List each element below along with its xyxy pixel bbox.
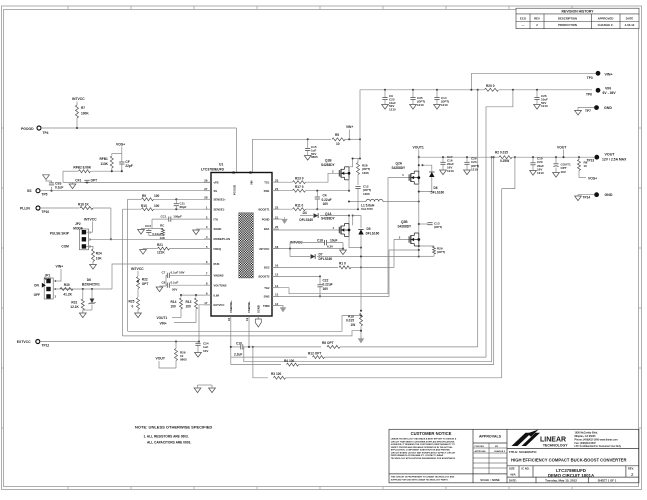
svg-text:VOUT: VOUT bbox=[605, 152, 616, 156]
resistor R18 0.015 1W bbox=[360, 310, 362, 312]
svg-text:23: 23 bbox=[275, 178, 279, 182]
svg-text:BZX84C5V1: BZX84C5V1 bbox=[82, 282, 100, 286]
ground TP14 bbox=[578, 195, 594, 196]
svg-text:26: 26 bbox=[204, 178, 208, 182]
ground PGND pin21 bbox=[272, 218, 282, 220]
svg-text:R21: R21 bbox=[157, 243, 163, 247]
jumper shunt arrow JP1 bbox=[42, 283, 46, 288]
svg-text:RFB2 8.06K: RFB2 8.06K bbox=[73, 165, 91, 169]
capacitor C24 1uF 16V bbox=[197, 342, 199, 343]
svg-text:TP14: TP14 bbox=[583, 196, 591, 200]
resistor R20 0 bbox=[485, 88, 499, 91]
svg-text:TP7: TP7 bbox=[585, 109, 591, 113]
wire VIN+ to TP3 bbox=[471, 72, 595, 74]
op-amp U1 LTC3789EUFD bbox=[211, 173, 272, 317]
svg-text:1210: 1210 bbox=[537, 171, 544, 175]
svg-text:6.3V: 6.3V bbox=[327, 244, 333, 248]
svg-text:LINEAR: LINEAR bbox=[540, 437, 566, 444]
resistor R12 OPT bbox=[313, 356, 325, 359]
svg-text:100: 100 bbox=[154, 194, 160, 198]
svg-text:COM: COM bbox=[61, 244, 69, 248]
svg-text:1306: 1306 bbox=[363, 192, 370, 196]
ground TP7 bbox=[578, 108, 594, 111]
svg-text:PGND: PGND bbox=[262, 217, 270, 221]
resistor R13 100 bbox=[195, 294, 197, 296]
svg-text:TG2: TG2 bbox=[264, 286, 270, 290]
capacitor C14 (OPT) 1210 bbox=[436, 89, 438, 91]
svg-text:HOWEVER, IT REMAINS THE CUSTOM: HOWEVER, IT REMAINS THE CUSTOMER'S RESPO… bbox=[391, 443, 456, 446]
U1 right pin labels and numbers bbox=[258, 178, 279, 307]
resistor R31 12.1K bbox=[82, 289, 84, 299]
wire U1 pin10 bbox=[230, 316, 232, 364]
svg-text:S4288DY: S4288DY bbox=[321, 163, 336, 167]
svg-text:DFLS160: DFLS160 bbox=[366, 232, 380, 236]
svg-text:22: 22 bbox=[275, 205, 279, 209]
svg-text:ON: ON bbox=[34, 284, 39, 288]
svg-text:R4 100: R4 100 bbox=[284, 359, 295, 363]
svg-text:ILIM: ILIM bbox=[214, 293, 220, 297]
svg-text:NOTE: UNLESS OTHERWISE SPECIFI: NOTE: UNLESS OTHERWISE SPECIFIED bbox=[135, 424, 212, 429]
test point TP10 PLLIN bbox=[36, 206, 40, 210]
svg-text:SS: SS bbox=[27, 189, 32, 193]
ground C29/C23 bbox=[464, 170, 471, 175]
svg-text:CSENSE+: CSENSE+ bbox=[229, 300, 233, 313]
wire C7/C8 left bbox=[165, 275, 167, 286]
svg-text:CHARLIE Z: CHARLIE Z bbox=[494, 450, 506, 453]
resistor R1 0 bbox=[272, 266, 338, 268]
svg-text:D4: D4 bbox=[303, 211, 307, 215]
net label VOUT1 (R14) bbox=[172, 317, 181, 319]
svg-text:R30: R30 bbox=[64, 283, 70, 287]
svg-text:vFB: vFB bbox=[214, 180, 219, 184]
resistor R9 100 bbox=[128, 198, 141, 200]
wire power bus mid bbox=[360, 248, 362, 311]
svg-text:100: 100 bbox=[186, 304, 192, 308]
ground C15 bbox=[304, 156, 311, 161]
resistor RFB1 113K bbox=[111, 153, 113, 155]
svg-text:100: 100 bbox=[154, 204, 160, 208]
svg-text:VERIFY PROPER AND RELIABLE OPE: VERIFY PROPER AND RELIABLE OPERATION IN … bbox=[391, 446, 454, 449]
svg-text:TECHNOLOGY APPLICATIONS ENGINE: TECHNOLOGY APPLICATIONS ENGINEERING FOR … bbox=[391, 457, 456, 460]
svg-text:Q1B: Q1B bbox=[325, 159, 332, 163]
resistor RC 13K bbox=[162, 229, 165, 236]
svg-text:RUN: RUN bbox=[214, 262, 220, 266]
svg-text:SIZE: SIZE bbox=[509, 466, 515, 470]
ground COUT1 bbox=[553, 173, 560, 178]
svg-text:R25: R25 bbox=[129, 300, 135, 304]
svg-text:VIN+: VIN+ bbox=[605, 72, 613, 76]
svg-text:R9: R9 bbox=[142, 194, 146, 198]
svg-text:VIN+: VIN+ bbox=[56, 265, 64, 269]
svg-text:C10: C10 bbox=[236, 341, 242, 345]
svg-text:C18: C18 bbox=[317, 238, 323, 242]
svg-text:INTVCC: INTVCC bbox=[72, 97, 85, 101]
resistor R21 121K bbox=[146, 248, 157, 250]
svg-text:CHARLIE Z.: CHARLIE Z. bbox=[598, 23, 614, 27]
U1 left pin labels and numbers bbox=[204, 178, 230, 307]
resistor R6 OPT bbox=[327, 345, 340, 348]
svg-text:24: 24 bbox=[275, 187, 279, 191]
capacitor C18 10uF 6.3V bbox=[289, 243, 291, 257]
test point TP14 GND bbox=[594, 192, 599, 197]
svg-text:DESCRIPTION: DESCRIPTION bbox=[558, 16, 577, 20]
svg-text:BOOST1: BOOST1 bbox=[258, 207, 270, 211]
svg-text:1210: 1210 bbox=[447, 169, 454, 173]
ground CF1 bbox=[72, 183, 74, 185]
svg-text:12: 12 bbox=[275, 302, 279, 306]
capacitor C19/C20 22uF 16V 1210 bbox=[532, 156, 534, 158]
svg-text:CIRCUIT BOARD LAYOUT MAY SIGNI: CIRCUIT BOARD LAYOUT MAY SIGNIFICANTLY A… bbox=[391, 451, 456, 454]
wire vFB bbox=[62, 171, 64, 182]
svg-text:1210: 1210 bbox=[471, 167, 478, 171]
svg-text:TP13: TP13 bbox=[587, 159, 595, 163]
svg-text:100K: 100K bbox=[81, 112, 89, 116]
ground R31 bbox=[79, 313, 86, 318]
resistor R7 100K bbox=[76, 102, 78, 106]
svg-text:VIN+: VIN+ bbox=[346, 125, 353, 129]
resistor R5 10 bbox=[332, 138, 345, 141]
svg-text:DFLS160: DFLS160 bbox=[299, 218, 313, 222]
svg-text:SS: SS bbox=[214, 189, 218, 193]
svg-text:22pF: 22pF bbox=[125, 164, 132, 168]
svg-text:21: 21 bbox=[275, 215, 279, 219]
svg-text:EXTVCC: EXTVCC bbox=[17, 340, 31, 344]
svg-text:R11 0: R11 0 bbox=[295, 204, 304, 208]
ground TRIM bbox=[280, 308, 286, 313]
wire INTVCC pin18 bbox=[272, 248, 343, 250]
svg-text:SGND: SGND bbox=[214, 227, 222, 231]
svg-text:R14: R14 bbox=[171, 300, 177, 304]
ground C26 bbox=[534, 105, 541, 110]
approvals table lines bbox=[473, 443, 507, 474]
wire VIN pin to rail bbox=[251, 139, 253, 172]
svg-text:R6 OPT: R6 OPT bbox=[322, 341, 334, 345]
svg-text:VOUT1: VOUT1 bbox=[157, 316, 168, 320]
svg-text:R17 0: R17 0 bbox=[295, 185, 304, 189]
capacitor C13 (OPT) bbox=[419, 223, 428, 225]
svg-text:13: 13 bbox=[275, 293, 279, 297]
ground SGND pin3 bbox=[196, 228, 204, 230]
wire sense1+ drop bbox=[127, 199, 129, 331]
wire CC2/RC bottom bbox=[149, 235, 163, 237]
svg-text:ITH: ITH bbox=[214, 217, 218, 221]
svg-text:DEMO CIRCUIT 1801A: DEMO CIRCUIT 1801A bbox=[548, 473, 595, 478]
wire BOOST2 bbox=[272, 275, 320, 277]
net label VOS+ (R8) bbox=[579, 177, 586, 179]
ground C9/C25 bbox=[382, 105, 389, 110]
title block frame bbox=[389, 429, 639, 483]
svg-text:VOUT: VOUT bbox=[156, 357, 166, 361]
ground SGND pin29 arrow bbox=[257, 316, 259, 319]
ground C24 bbox=[195, 353, 202, 358]
resistor R3 100 bbox=[274, 376, 286, 379]
wire sense R6 line bbox=[253, 346, 321, 348]
svg-text:PGOOD: PGOOD bbox=[233, 185, 237, 195]
svg-text:SUPPLIED FOR USE WITH LINEAR T: SUPPLIED FOR USE WITH LINEAR TECHNOLOGY … bbox=[391, 478, 449, 481]
svg-text:15: 15 bbox=[275, 273, 279, 277]
svg-text:FREQ: FREQ bbox=[214, 247, 221, 251]
svg-text:CC2: CC2 bbox=[145, 224, 151, 228]
wire R18 kelvin bottom bbox=[123, 331, 362, 336]
svg-text:28: 28 bbox=[204, 196, 208, 200]
svg-text:R12 OPT: R12 OPT bbox=[308, 351, 321, 355]
svg-text:6V - 36V: 6V - 36V bbox=[603, 91, 617, 95]
svg-text:REV.: REV. bbox=[628, 466, 634, 470]
svg-text:DATE:: DATE: bbox=[509, 478, 517, 482]
resistor R11 0 bbox=[272, 208, 292, 210]
test point TP4 PGOOD bbox=[37, 126, 41, 130]
svg-text:SENSE1-: SENSE1- bbox=[214, 207, 226, 211]
svg-text:MODE/PLLIN: MODE/PLLIN bbox=[214, 237, 231, 241]
svg-text:VOUTSNS: VOUTSNS bbox=[214, 283, 227, 287]
svg-text:VIN: VIN bbox=[605, 86, 611, 90]
svg-text:U1: U1 bbox=[219, 162, 223, 166]
svg-text:REVISION HISTORY: REVISION HISTORY bbox=[561, 9, 594, 13]
svg-text:VIN+: VIN+ bbox=[160, 321, 167, 325]
svg-text:PGOOD: PGOOD bbox=[21, 127, 34, 131]
svg-text:THIS CIRCUIT IS PROPRIETARY TO: THIS CIRCUIT IS PROPRIETARY TO LINEAR TE… bbox=[391, 476, 455, 479]
svg-text:0805: 0805 bbox=[180, 358, 187, 362]
test point TP13 VOUT bbox=[594, 155, 599, 160]
wire JP1 pin1 bbox=[54, 269, 61, 281]
svg-text:14: 14 bbox=[275, 284, 279, 288]
svg-text:1. ALL RESISTORS ARE 0603.: 1. ALL RESISTORS ARE 0603. bbox=[144, 434, 189, 438]
resistor R30 41.2K bbox=[60, 288, 73, 291]
resistor RFB2 8.06K bbox=[63, 170, 78, 172]
svg-text:113K: 113K bbox=[101, 162, 109, 166]
svg-text:OFF: OFF bbox=[34, 293, 40, 297]
svg-text:—: — bbox=[522, 23, 525, 27]
wire BG2 to Q2B gate bbox=[361, 240, 413, 268]
capacitor C9/C25 10uF 50V 1210 bbox=[384, 89, 386, 91]
svg-text:R3 100: R3 100 bbox=[271, 372, 282, 376]
svg-text:27: 27 bbox=[204, 187, 208, 191]
capacitor C17/C16 22uF 16V 1210 bbox=[442, 156, 444, 158]
svg-text:CC1: CC1 bbox=[161, 214, 167, 218]
svg-text:D5: D5 bbox=[367, 227, 371, 231]
svg-text:PERFORMANCE OR RELIABILITY. C: PERFORMANCE OR RELIABILITY. CONTACT LINE… bbox=[391, 454, 444, 457]
svg-text:GND: GND bbox=[605, 193, 613, 197]
ground R21 bbox=[140, 250, 147, 255]
svg-text:TG1: TG1 bbox=[264, 180, 270, 184]
resistor R22 OPT bbox=[137, 271, 139, 276]
svg-text:SGND: SGND bbox=[256, 305, 260, 313]
wire TG2 to Q2A gate bbox=[272, 178, 413, 294]
svg-text:18: 18 bbox=[275, 245, 279, 249]
capacitor C7 0.1uF 50V bbox=[166, 274, 167, 276]
ground stray 2 bbox=[209, 388, 216, 393]
resistor R2 0.015 0.25W bbox=[499, 156, 512, 159]
svg-text:TP5: TP5 bbox=[42, 193, 48, 197]
svg-text:R22: R22 bbox=[142, 277, 148, 281]
svg-text:XAL7070: XAL7070 bbox=[361, 207, 373, 211]
svg-text:C4: C4 bbox=[323, 193, 327, 197]
wire TG1 to Q1B gate bbox=[328, 173, 344, 182]
ground C35 bbox=[410, 105, 417, 110]
svg-text:CF1: CF1 bbox=[75, 179, 81, 183]
resistor R16 1K bbox=[40, 207, 80, 209]
ground C19/C20 bbox=[530, 171, 537, 176]
wire JP2 pin1 to INTVCC bbox=[86, 222, 92, 233]
capacitor C8 0.1uF 50V bbox=[166, 284, 167, 286]
wire Q1A source to bus bbox=[349, 247, 361, 249]
ground C17/C16 bbox=[440, 170, 447, 175]
svg-text:S4288DY: S4288DY bbox=[398, 224, 413, 228]
svg-text:Q2B: Q2B bbox=[401, 220, 408, 224]
svg-text:OPT: OPT bbox=[142, 282, 149, 286]
wire MODE/PLLIN bbox=[90, 238, 212, 240]
diode D6 DFLS160 bbox=[418, 164, 420, 166]
wire R3 vertical right bbox=[501, 189, 503, 378]
resistor R25 0 bbox=[137, 298, 140, 310]
svg-text:INTVCC: INTVCC bbox=[84, 218, 97, 222]
svg-text:1W: 1W bbox=[351, 323, 356, 327]
resistor R4 100 bbox=[287, 363, 299, 366]
ground CC2 bbox=[138, 230, 145, 235]
svg-text:SW2: SW2 bbox=[264, 295, 270, 299]
svg-text:2.2uF: 2.2uF bbox=[234, 353, 242, 357]
wire R31/D6 bottom bbox=[83, 309, 92, 311]
svg-text:25: 25 bbox=[232, 171, 236, 175]
svg-text:R10: R10 bbox=[141, 204, 147, 208]
svg-text:S4288DY: S4288DY bbox=[321, 217, 336, 221]
resistor R29 (OPT) bbox=[419, 245, 434, 248]
wire sense R3 line bbox=[253, 347, 268, 378]
svg-text:VOUT: VOUT bbox=[557, 145, 567, 149]
svg-text:R31: R31 bbox=[71, 300, 77, 304]
svg-text:13K: 13K bbox=[160, 236, 166, 240]
svg-text:IC NO.: IC NO. bbox=[522, 466, 530, 470]
wire R20 kelvin left bbox=[477, 90, 479, 347]
svg-text:0.1uF 50V: 0.1uF 50V bbox=[171, 271, 185, 275]
wire jog vertical right bbox=[491, 157, 493, 362]
svg-text:DATE: DATE bbox=[626, 16, 634, 20]
svg-text:TRIM: TRIM bbox=[263, 304, 270, 308]
revision history table bbox=[516, 8, 639, 29]
svg-text:R13: R13 bbox=[186, 300, 192, 304]
svg-text:RFB1: RFB1 bbox=[100, 157, 109, 161]
test point TP6 VIN bbox=[596, 88, 601, 93]
resistor R8 10 bbox=[578, 156, 580, 158]
svg-text:10: 10 bbox=[227, 317, 231, 321]
svg-text:VOUT1: VOUT1 bbox=[413, 145, 424, 149]
wire RUN net bbox=[54, 288, 112, 290]
capacitor C10 2.2uF bbox=[231, 346, 241, 348]
ground R24 bbox=[90, 265, 97, 270]
svg-text:VOS+: VOS+ bbox=[588, 176, 597, 180]
wire ITH compensation bbox=[152, 219, 163, 228]
svg-text:INTVCC: INTVCC bbox=[259, 247, 269, 251]
svg-text:1210: 1210 bbox=[541, 104, 548, 108]
svg-text:10: 10 bbox=[584, 164, 588, 168]
svg-text:APPROVAL: APPROVAL bbox=[475, 450, 487, 453]
svg-text:DFLS160: DFLS160 bbox=[319, 257, 333, 261]
ground R25 bbox=[135, 313, 142, 318]
resistor R23 0 bbox=[272, 181, 292, 183]
svg-text:BOOST2: BOOST2 bbox=[258, 275, 270, 279]
svg-text:R5: R5 bbox=[335, 133, 339, 137]
wire VOUT1 rail bbox=[419, 156, 499, 158]
svg-text:TITLE: SCHEMATIC: TITLE: SCHEMATIC bbox=[509, 450, 538, 454]
wire U1 pin11 bbox=[248, 316, 250, 347]
svg-text:SHEET 1 OF 1: SHEET 1 OF 1 bbox=[598, 478, 617, 482]
svg-text:R24: R24 bbox=[96, 251, 102, 255]
capacitor C22 0.22uF 16V bbox=[319, 276, 321, 284]
svg-text:C7: C7 bbox=[162, 271, 166, 275]
svg-text:VIN: VIN bbox=[250, 180, 254, 185]
svg-text:CUSTOMER NOTICE: CUSTOMER NOTICE bbox=[411, 431, 452, 436]
wire R18 kelvin top bbox=[128, 316, 361, 332]
svg-text:PRODUCTION: PRODUCTION bbox=[558, 23, 577, 27]
svg-text:OPT: OPT bbox=[91, 179, 98, 183]
capacitor C11 68pF bbox=[175, 198, 177, 200]
test point TP7 GND bbox=[594, 105, 599, 110]
svg-text:41.2K: 41.2K bbox=[63, 292, 72, 296]
capacitor C4 0.22uF 16V bbox=[316, 191, 318, 197]
diode D7 DFLS160 bbox=[290, 256, 310, 258]
capacitor C15 1uF 50V 0805 bbox=[307, 139, 309, 148]
wire sense mid line bbox=[244, 347, 492, 362]
svg-text:PLLIN: PLLIN bbox=[20, 206, 30, 210]
svg-text:0805: 0805 bbox=[311, 155, 318, 159]
svg-text:50V: 50V bbox=[172, 288, 177, 292]
test point TP5 SS bbox=[36, 189, 40, 193]
wire R20 kelvin right bbox=[486, 90, 513, 357]
svg-text:R16 1K: R16 1K bbox=[78, 202, 90, 206]
ground C18 bbox=[340, 250, 347, 255]
capacitor CC2 0.01uF bbox=[148, 229, 150, 231]
svg-text:0: 0 bbox=[132, 305, 134, 309]
svg-text:VINSNS: VINSNS bbox=[214, 274, 224, 278]
svg-text:Tuesday, May 15, 2012: Tuesday, May 15, 2012 bbox=[545, 478, 577, 482]
svg-text:TP6: TP6 bbox=[586, 93, 592, 97]
resistor R10 100 bbox=[123, 208, 142, 210]
svg-text:ECO: ECO bbox=[520, 16, 527, 20]
wire SS bbox=[40, 190, 211, 192]
svg-text:TECHNOLOGY: TECHNOLOGY bbox=[543, 444, 568, 448]
svg-text:20: 20 bbox=[275, 225, 279, 229]
svg-text:11: 11 bbox=[245, 318, 249, 321]
resistor R14 100 bbox=[181, 294, 204, 296]
svg-text:DFLS160: DFLS160 bbox=[431, 190, 445, 194]
wire SW2 bbox=[272, 250, 419, 296]
diode D5 DFLS160 bbox=[353, 216, 361, 228]
svg-text:EXTVCC: EXTVCC bbox=[214, 303, 225, 307]
svg-text:(OPT): (OPT) bbox=[437, 250, 445, 254]
svg-text:APPLICATION. COMPONENT SUBSTI: APPLICATION. COMPONENT SUBSTITUTION AND … bbox=[391, 449, 451, 452]
svg-text:R20 0: R20 0 bbox=[486, 84, 495, 88]
svg-text:16V: 16V bbox=[323, 202, 330, 206]
capacitor C26 10uF 50V 1210 bbox=[536, 89, 538, 91]
svg-text:16: 16 bbox=[275, 264, 279, 268]
capacitor C35 (OPT) 1210 bbox=[412, 89, 414, 91]
svg-text:R1 0: R1 0 bbox=[339, 262, 346, 266]
svg-text:19: 19 bbox=[249, 171, 253, 175]
svg-text:1210: 1210 bbox=[417, 103, 424, 107]
svg-text:VOS+: VOS+ bbox=[116, 142, 125, 146]
svg-text:CSENSE-: CSENSE- bbox=[247, 301, 251, 313]
svg-text:16V: 16V bbox=[561, 170, 566, 174]
svg-text:INTVCC: INTVCC bbox=[131, 267, 144, 271]
svg-text:R2 0.015: R2 0.015 bbox=[495, 151, 508, 155]
svg-text:0.25W: 0.25W bbox=[500, 159, 509, 163]
svg-text:BG1: BG1 bbox=[264, 227, 270, 231]
svg-text:TP4: TP4 bbox=[43, 131, 49, 135]
svg-text:12V / 2.5A MAX: 12V / 2.5A MAX bbox=[602, 157, 627, 161]
wire VOS+ stub bbox=[121, 147, 123, 154]
svg-text:4-03-12: 4-03-12 bbox=[625, 23, 635, 27]
svg-text:SENSE1+: SENSE1+ bbox=[214, 198, 227, 202]
